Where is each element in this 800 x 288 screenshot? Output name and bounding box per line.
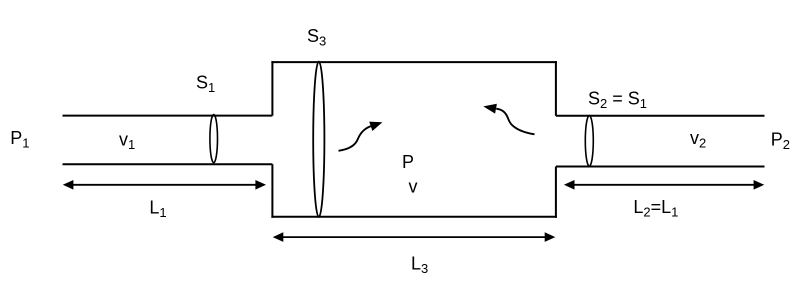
chamber left wall lower segment [271,164,273,218]
cross-section ellipse S3 [313,62,324,218]
cross-section ellipse S2 [585,116,593,167]
curved flow arrow left [339,122,383,151]
cross-section ellipse S1 [210,115,218,163]
chamber top wall [271,61,557,63]
chamber right wall lower segment [555,167,557,218]
svg-text:P: P [402,152,414,172]
curved flow arrow right [483,104,534,135]
chamber left wall upper segment [271,61,273,116]
chamber bottom wall [271,216,557,218]
left pipe top wall [63,115,273,117]
right pipe top wall [556,115,765,117]
right pipe bottom wall [556,166,765,168]
svg-text:S2 = S1: S2 = S1 [588,89,647,112]
svg-text:v: v [409,177,418,197]
dimension arrow L2 [564,180,764,190]
dimension arrow L3 [273,232,556,242]
chamber right wall upper segment [555,61,557,116]
dimension arrow L1 [63,180,266,190]
left pipe bottom wall [63,163,273,165]
